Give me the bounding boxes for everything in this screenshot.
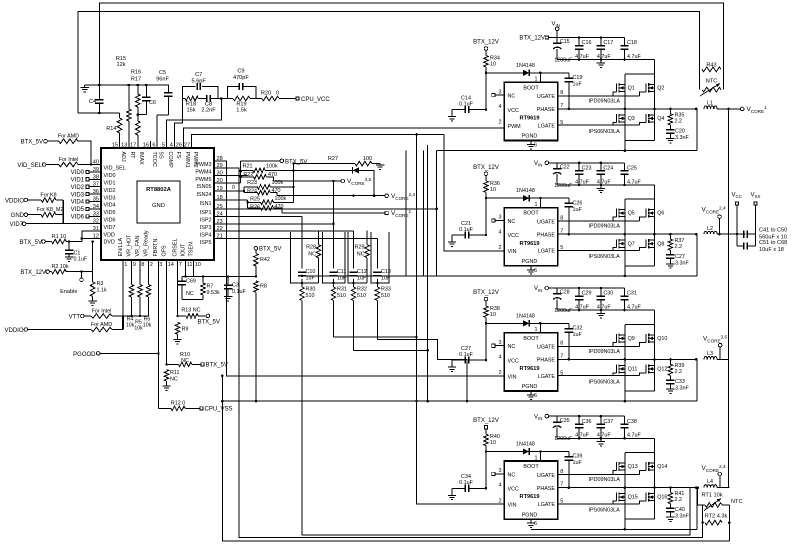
wire phase4 output <box>717 487 730 489</box>
svg-text:C18: C18 <box>627 40 637 46</box>
svg-text:2: 2 <box>499 370 502 376</box>
svg-text:COMP: COMP <box>167 152 173 169</box>
svg-text:Q8: Q8 <box>657 241 664 247</box>
resistor R2 10k <box>51 264 92 274</box>
port VTT <box>69 314 92 320</box>
wire RT network bottoms <box>703 523 730 541</box>
svg-text:15k: 15k <box>186 108 195 114</box>
svg-text:C25: C25 <box>627 166 637 172</box>
svg-text:C37: C37 <box>603 419 613 425</box>
svg-text:1200uF: 1200uF <box>554 58 573 64</box>
capacitor C29 4.7uF <box>575 288 592 311</box>
ground PGND (phase 4) <box>527 519 535 527</box>
svg-text:OFS: OFS <box>162 245 168 256</box>
wire phase3 bus ext <box>221 400 437 403</box>
label IPS06N03LA (phase 1) <box>589 129 621 135</box>
svg-text:R9: R9 <box>182 327 189 333</box>
svg-text:2.2: 2.2 <box>675 119 683 125</box>
capacitor C27 0.1uF <box>448 346 486 372</box>
svg-text:Enable: Enable <box>60 289 77 295</box>
svg-text:FS: FS <box>175 152 181 159</box>
wire pin3 vertical <box>157 260 160 408</box>
svg-text:R8: R8 <box>260 284 267 290</box>
wire phase1 output <box>717 108 740 111</box>
capacitor C31 4.7uF <box>620 288 641 311</box>
capacitor C18 4.7uF <box>620 38 641 61</box>
svg-text:R24: R24 <box>247 189 257 195</box>
wire PWM5 stub <box>214 175 248 177</box>
svg-text:C17: C17 <box>603 40 613 46</box>
port VCORE24 (sense) <box>385 192 416 201</box>
wire VCORE sense vertical <box>727 109 729 488</box>
op-amp U1 RT8802A main controller box <box>101 148 214 260</box>
resistor R20 0 <box>256 91 296 101</box>
op-amp U RT9619 driver (phase 1) <box>504 82 558 140</box>
capacitor C30 4.7uF <box>597 288 614 311</box>
wire comp net left node <box>174 99 182 142</box>
svg-text:L3: L3 <box>707 351 713 357</box>
wire LGATE (phase 3) <box>558 373 639 376</box>
wire C4 bottom rail <box>78 112 119 115</box>
svg-text:FBRTN: FBRTN <box>153 239 159 257</box>
svg-text:Q11: Q11 <box>628 367 638 373</box>
svg-text:RT9619: RT9619 <box>520 241 540 247</box>
svg-text:BTX_5V: BTX_5V <box>21 140 43 146</box>
svg-text:PHASE: PHASE <box>537 358 556 364</box>
svg-text:C7: C7 <box>195 72 202 78</box>
svg-text:CPU_VSS: CPU_VSS <box>205 407 233 413</box>
resistor R3 1.1k <box>88 272 107 306</box>
svg-text:3: 3 <box>499 215 502 221</box>
svg-text:LGATE: LGATE <box>538 249 556 255</box>
wire phase4 bus ext <box>436 528 438 530</box>
svg-text:IPS06N03LA: IPS06N03LA <box>589 254 621 260</box>
resistor R41 2.2 <box>668 488 684 509</box>
resistor R35 2.2 <box>668 109 684 130</box>
svg-text:R25: R25 <box>250 197 260 203</box>
svg-text:C19: C19 <box>573 75 583 81</box>
label IPD09N03LA (phase 1) <box>589 98 621 104</box>
wire UGATE (phase 3) <box>558 342 639 346</box>
wire network bottom rail <box>182 299 203 301</box>
svg-text:2.2: 2.2 <box>675 497 683 503</box>
resistor R37 2.2 <box>668 234 684 255</box>
wire phase2/3 gnd tie <box>427 145 429 401</box>
resistor R19 1.5k <box>228 96 256 113</box>
wire BOOT (phase 3) <box>535 323 541 333</box>
svg-text:Q14: Q14 <box>657 464 667 470</box>
svg-text:Q3: Q3 <box>628 116 635 122</box>
RT8802A left pin labels <box>93 160 126 246</box>
svg-text:RT: RT <box>129 152 135 160</box>
svg-text:BTX_5V: BTX_5V <box>20 240 42 246</box>
port BTX_12V (phase 4) <box>473 418 499 434</box>
port BTX_12V (R2) <box>20 270 51 276</box>
svg-text:1200uF: 1200uF <box>554 436 573 442</box>
svg-text:PGND: PGND <box>522 384 538 390</box>
wire pin7 down <box>176 260 179 317</box>
wire drain rail (phase 3) <box>625 324 655 334</box>
svg-text:10: 10 <box>490 187 496 193</box>
wire ISP3 to column <box>214 223 334 225</box>
transistor Q9 <box>616 334 634 343</box>
svg-text:510: 510 <box>357 293 366 299</box>
svg-text:26: 26 <box>176 142 182 148</box>
port BTX_5V (sense pullup) <box>241 159 308 165</box>
transistor Q16 <box>646 493 667 502</box>
svg-text:VCC: VCC <box>508 487 519 493</box>
svg-text:R2 10k: R2 10k <box>51 264 68 270</box>
svg-text:PWM: PWM <box>508 124 522 130</box>
RT8802A inner GND pad box <box>137 181 180 223</box>
wire VCC riser (phase 1) <box>485 73 488 111</box>
svg-text:10: 10 <box>490 312 496 318</box>
svg-text:4: 4 <box>499 229 502 235</box>
wire ISP5 to column <box>214 238 377 240</box>
resistor R28 NC <box>306 231 321 283</box>
svg-text:VID4: VID4 <box>104 203 116 209</box>
resistor R25 100k <box>248 196 294 205</box>
wire COMP pin staircase <box>167 97 223 141</box>
capacitor C1 0.1uF <box>65 242 88 263</box>
svg-text:1uF: 1uF <box>573 207 583 213</box>
svg-text:C16: C16 <box>582 40 592 46</box>
svg-text:C22: C22 <box>560 165 570 171</box>
ports VID0-VID6 <box>71 170 101 220</box>
svg-text:1.1k: 1.1k <box>97 288 107 294</box>
capacitor C35 1200uF <box>553 416 573 442</box>
wire pin1 down <box>122 260 124 316</box>
svg-text:NC: NC <box>186 291 194 297</box>
svg-text:NC: NC <box>308 252 316 258</box>
svg-text:R30: R30 <box>306 287 316 293</box>
svg-text:PGND: PGND <box>522 259 538 265</box>
svg-text:RT9619: RT9619 <box>520 116 540 122</box>
svg-text:L4: L4 <box>707 479 713 485</box>
svg-text:0.1uF: 0.1uF <box>459 352 473 358</box>
port Enable <box>60 272 83 295</box>
wire UGATE (phase 2) <box>558 217 639 221</box>
svg-text:C51 to C68: C51 to C68 <box>759 240 787 246</box>
svg-text:R1 10: R1 10 <box>52 234 66 240</box>
svg-text:13: 13 <box>121 142 127 148</box>
svg-text:1: 1 <box>124 262 127 268</box>
svg-text:ISP2: ISP2 <box>200 218 212 224</box>
svg-text:PWM1: PWM1 <box>184 152 190 168</box>
svg-text:PWM5: PWM5 <box>195 177 211 183</box>
svg-text:R17: R17 <box>131 77 141 83</box>
svg-text:LGATE: LGATE <box>538 502 556 508</box>
svg-text:C6: C6 <box>149 100 156 106</box>
wire R4-R6 bottom rail <box>123 315 149 318</box>
transistor Q2 <box>646 83 664 92</box>
wire cap bottom rail (phase 3) <box>557 309 654 325</box>
svg-text:C39: C39 <box>573 454 583 460</box>
wire BOOT (phase 4) <box>535 452 541 462</box>
svg-text:10k: 10k <box>143 323 152 329</box>
svg-text:C26: C26 <box>573 200 583 206</box>
svg-text:VID_SEL: VID_SEL <box>104 166 126 172</box>
svg-text:RT8802A: RT8802A <box>146 187 172 193</box>
capacitor C11 1uF <box>329 269 347 282</box>
svg-text:C23: C23 <box>582 166 592 172</box>
svg-text:PHASE: PHASE <box>537 107 556 113</box>
capacitor C12 1uF <box>349 269 367 282</box>
capacitor C23 4.7uF <box>575 163 592 186</box>
svg-text:TCOC: TCOC <box>151 152 157 167</box>
svg-text:2: 2 <box>499 498 502 504</box>
wire phase2 bus ext <box>302 275 437 277</box>
svg-text:R32: R32 <box>357 287 367 293</box>
wire Q2 gate lead (phase 1) <box>639 92 646 96</box>
svg-text:RT9619: RT9619 <box>520 366 540 372</box>
svg-text:4: 4 <box>170 142 173 148</box>
capacitor C15 1200uF <box>553 38 573 64</box>
svg-text:C40: C40 <box>675 507 685 513</box>
svg-text:NTC: NTC <box>706 79 718 85</box>
svg-text:NC: NC <box>170 377 178 383</box>
wire Q2 gate lead (phase 4) <box>639 471 646 475</box>
svg-text:Q5: Q5 <box>628 211 635 217</box>
wire network row <box>182 275 257 278</box>
RT9619 pin numbers (phase 3) <box>499 340 564 399</box>
svg-text:10k: 10k <box>126 323 135 329</box>
svg-text:NC: NC <box>508 472 516 478</box>
wire phase gnd bus (phase 2) <box>437 234 697 277</box>
svg-text:3.3nF: 3.3nF <box>675 386 689 392</box>
wire VTT/VDDIO join bar <box>122 316 124 330</box>
wire IOUT/TSEN to network <box>186 260 194 277</box>
wire Vin rail (phase 3) <box>557 287 624 290</box>
resistor R17 <box>131 77 141 142</box>
wire PWM1 to phase1 <box>184 128 505 141</box>
resistor R22 470 <box>241 172 277 181</box>
ground (cap row phase 3) <box>597 310 605 318</box>
wire C11 to phase3 bus <box>334 336 417 338</box>
capacitor C32 1uF <box>540 323 582 360</box>
svg-text:Q4: Q4 <box>657 116 664 122</box>
svg-text:10k: 10k <box>134 326 143 332</box>
resistor R9 <box>173 322 188 344</box>
port CPU_VSS <box>200 407 233 413</box>
svg-text:0.1uF: 0.1uF <box>459 102 473 108</box>
svg-text:8: 8 <box>141 262 144 268</box>
wire C12 tail <box>354 349 429 352</box>
svg-text:1N4148: 1N4148 <box>516 313 535 319</box>
svg-text:BOOT: BOOT <box>523 85 539 91</box>
transistor Q11 <box>616 364 637 373</box>
svg-text:DVD: DVD <box>104 240 115 246</box>
svg-text:3: 3 <box>159 262 162 268</box>
svg-text:For AMD: For AMD <box>58 134 79 140</box>
svg-text:VR_HOT: VR_HOT <box>127 234 133 257</box>
resistor R27 100 <box>294 156 381 166</box>
svg-text:R3: R3 <box>97 281 104 287</box>
wire UGATE (phase 1) <box>558 92 639 96</box>
wire bus C <box>221 375 729 541</box>
svg-text:470: 470 <box>268 172 277 178</box>
wire phase2 VIN feed <box>444 134 504 251</box>
svg-text:R22: R22 <box>243 172 253 178</box>
svg-text:BOOT: BOOT <box>523 211 539 217</box>
wire source to phase rail (phase 1) <box>624 91 656 110</box>
svg-text:1200uF: 1200uF <box>554 308 573 314</box>
op-amp U RT9619 driver (phase 3) <box>504 333 558 391</box>
svg-text:R42: R42 <box>260 257 270 263</box>
svg-text:CRSEL: CRSEL <box>173 239 179 257</box>
wire BOOT (phase 2) <box>535 198 541 208</box>
wire drain rail (phase 2) <box>625 199 655 209</box>
wire gnd tie 406 <box>405 151 407 276</box>
capacitor C37 4.7uF <box>597 416 614 439</box>
wire phase gnd bus (phase 4) <box>531 488 697 531</box>
wire C12 sense box <box>348 232 367 284</box>
port VCC (output) <box>732 193 742 246</box>
svg-text:17: 17 <box>130 142 136 148</box>
svg-text:GND: GND <box>11 213 25 219</box>
svg-text:C4: C4 <box>89 99 96 105</box>
inductor L1 <box>704 101 717 109</box>
svg-text:BTX_5V: BTX_5V <box>259 247 281 253</box>
svg-text:UGATE: UGATE <box>537 345 556 351</box>
port BTX_12V (phase 1 vin) <box>519 36 557 42</box>
svg-text:6: 6 <box>534 143 537 149</box>
wire low sources rail (phase 2) <box>625 247 655 276</box>
svg-text:VCC: VCC <box>508 233 519 239</box>
svg-text:VCC: VCC <box>508 358 519 364</box>
svg-text:0: 0 <box>276 91 279 97</box>
resistor R11 NC <box>164 370 179 383</box>
svg-text:PGND: PGND <box>522 134 538 140</box>
label IPS06N03LA (phase 4) <box>589 508 621 514</box>
RT9619 pin numbers (phase 1) <box>499 89 564 148</box>
svg-text:1uF: 1uF <box>573 82 583 88</box>
svg-text:4: 4 <box>499 104 502 110</box>
svg-text:NC: NC <box>508 219 516 225</box>
transistor Q13 <box>616 462 637 471</box>
svg-text:C29: C29 <box>582 291 592 297</box>
wire Vin rail (phase 4) <box>557 415 624 418</box>
svg-text:VSS: VSS <box>751 193 761 200</box>
svg-text:7: 7 <box>179 262 182 268</box>
wire Q2 gate lead (phase 2) <box>639 217 646 221</box>
resistor R7 9.53k <box>201 277 220 300</box>
wire LGATE (phase 2) <box>558 248 639 251</box>
svg-text:C69: C69 <box>186 279 196 285</box>
wire low drains (phase 4) <box>625 488 655 494</box>
wire source to phase rail (phase 3) <box>624 342 656 361</box>
svg-text:BTX_12V: BTX_12V <box>20 270 46 276</box>
svg-text:9: 9 <box>133 262 136 268</box>
wire Q2 gate lead (phase 3) <box>639 342 646 346</box>
diode 1N4148 (phase 1) <box>486 63 542 76</box>
resistor R34 10 <box>484 56 500 75</box>
svg-text:15: 15 <box>112 142 118 148</box>
wire R2 node up <box>91 240 94 271</box>
wire Q4 gate lead (phase 3) <box>639 373 646 376</box>
svg-text:16: 16 <box>143 142 149 148</box>
svg-text:R12 0: R12 0 <box>171 401 185 407</box>
port BTX_12V (phase 3) <box>473 290 499 306</box>
svg-text:12k: 12k <box>116 62 125 68</box>
svg-text:6: 6 <box>534 521 537 527</box>
svg-text:Q7: Q7 <box>628 241 635 247</box>
resistor R1 10 <box>52 234 82 244</box>
svg-text:VID7: VID7 <box>10 222 24 228</box>
resistor For K8_M2 <box>37 207 64 217</box>
wire comp top rail <box>85 84 169 87</box>
svg-text:LGATE: LGATE <box>538 374 556 380</box>
svg-text:R16: R16 <box>131 70 141 76</box>
ground (R27) <box>376 164 384 170</box>
svg-text:TSEN: TSEN <box>189 242 195 256</box>
svg-text:510: 510 <box>337 293 346 299</box>
port VCORE24 (phase4 output) <box>702 464 727 487</box>
svg-text:ADJ: ADJ <box>120 152 126 162</box>
ground (cap row phase 1) <box>597 60 605 68</box>
svg-text:LGATE: LGATE <box>538 123 556 129</box>
svg-text:PWM3: PWM3 <box>195 162 211 168</box>
svg-text:3: 3 <box>499 89 502 95</box>
wire 100k common vertical <box>292 162 295 202</box>
capacitor C69 NC <box>178 277 196 300</box>
svg-text:C12: C12 <box>357 269 367 275</box>
svg-text:Q6: Q6 <box>657 211 664 217</box>
resistor R21 100k <box>241 164 353 173</box>
svg-text:VID1: VID1 <box>71 178 85 184</box>
capacitor C17 4.7uF <box>597 38 614 61</box>
RT9619 pin numbers (phase 4) <box>499 468 564 527</box>
svg-text:VIN: VIN <box>508 503 517 509</box>
svg-text:1uF: 1uF <box>573 460 583 466</box>
svg-text:Q16: Q16 <box>657 495 667 501</box>
svg-text:1uF: 1uF <box>573 332 583 338</box>
transistor Q15 <box>616 493 637 502</box>
resistor For K8 <box>40 192 63 202</box>
svg-text:4: 4 <box>499 483 502 489</box>
wire pin14 down <box>165 260 168 366</box>
transistor Q10 <box>646 334 667 343</box>
thermistor NTC (R43 parallel) <box>700 69 724 96</box>
svg-text:VIN: VIN <box>534 414 542 421</box>
svg-text:1N4148: 1N4148 <box>516 442 535 448</box>
port VIN (phase 1) <box>552 22 560 38</box>
svg-text:SS: SS <box>157 152 163 160</box>
svg-text:9.53k: 9.53k <box>207 290 220 296</box>
svg-text:1.5k: 1.5k <box>236 108 247 114</box>
capacitor C40 3.3nF <box>666 507 689 521</box>
svg-text:R21: R21 <box>243 164 253 170</box>
port VIN (phase 2) <box>534 161 557 168</box>
capacitor C13 1uF <box>373 269 391 282</box>
wire VCORE35 line <box>274 180 342 183</box>
resistor R30 510 <box>300 287 316 301</box>
wire LGATE (phase 1) <box>558 122 639 125</box>
svg-text:VTT: VTT <box>69 315 81 321</box>
svg-text:8: 8 <box>560 90 563 96</box>
port GND (For K8_M2) <box>11 213 42 219</box>
resistor For AMD (VDDIO) <box>91 322 123 332</box>
wire feedback line B (top) <box>78 11 699 113</box>
svg-text:VID3: VID3 <box>104 195 116 201</box>
svg-text:2.2: 2.2 <box>675 369 683 375</box>
port BTX_12V (phase 2) <box>473 165 499 181</box>
svg-text:2: 2 <box>150 262 153 268</box>
wire UGATE (phase 4) <box>558 471 639 475</box>
svg-text:BTX_12V: BTX_12V <box>473 418 499 424</box>
svg-text:For Intel: For Intel <box>92 308 112 314</box>
svg-text:7: 7 <box>560 228 563 234</box>
